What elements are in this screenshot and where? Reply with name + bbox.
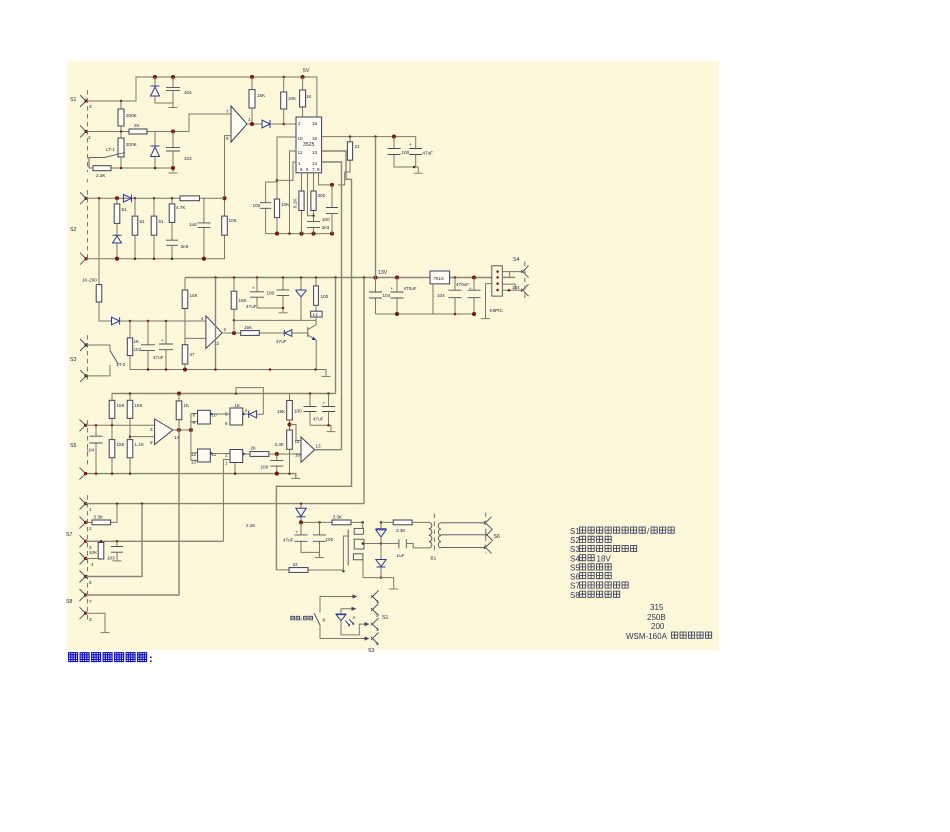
connector pin 8 [80,607,88,619]
capacitor 47uF C11 [165,321,167,370]
svg-text:+: + [323,401,326,406]
svg-text:S7: S7 [66,532,72,538]
wire S7 pin3 row [86,540,224,542]
svg-text:15K: 15K [239,298,248,303]
svg-text:47uF: 47uF [283,538,294,543]
svg-text:2.2K: 2.2K [96,173,106,178]
capacitor 47uF C12 [257,278,283,309]
connector lamp pin 2 [371,604,379,616]
schematic cream panel background [67,61,719,650]
connector pin 7 [80,589,88,601]
svg-text:100: 100 [326,537,334,542]
connector S2 pin b [80,253,88,265]
resistor 47 [182,345,188,364]
zener D2 [154,132,156,169]
resistor 3.3K driver b [393,520,412,525]
svg-text:100: 100 [402,150,410,155]
wire K8PIC pin2 [502,276,515,278]
wire to transformer primary [381,521,429,523]
gate G2 [230,408,243,425]
resistor 22 gate [276,570,343,571]
resistor 10K S7 [98,543,104,560]
svg-text:3: 3 [89,104,92,109]
op-amp U3 [155,419,173,445]
svg-text:1uF: 1uF [397,553,405,558]
resistor 10K feedback [222,216,228,235]
wire pin1 [277,162,296,180]
resistor 300 pin7 [313,173,315,216]
svg-text:5: 5 [89,580,92,585]
svg-text:S8: S8 [66,599,72,605]
wire 13V rail [185,277,492,279]
legend S5 line [570,564,611,573]
wire G1 to G2 [210,413,230,415]
capacitor 100 pin8 node [331,185,333,234]
svg-text:S2: S2 [70,227,76,233]
svg-text:7: 7 [226,109,229,114]
wire S7 pin5 row [86,504,143,577]
svg-text:16: 16 [235,403,241,408]
svg-text:2: 2 [89,526,92,531]
svg-text:4.7K: 4.7K [176,205,186,210]
connector pin 2 [80,516,88,528]
svg-text:+: + [391,286,394,291]
svg-text:8: 8 [317,167,320,172]
gate G4 [230,450,243,463]
svg-text:11: 11 [212,452,217,457]
wire chevron2 row [86,114,231,132]
svg-text:L1: L1 [313,312,319,317]
resistor 10K pullup [281,92,287,109]
resistor 15K output [241,331,260,336]
svg-text:47uF: 47uF [313,417,324,422]
transformer B1 secondary coil [438,523,441,548]
resistor 15K d [287,401,293,421]
svg-text:22: 22 [293,562,299,567]
svg-text:9: 9 [150,440,153,445]
svg-text:78L5: 78L5 [434,276,445,281]
svg-text:200K: 200K [126,113,138,118]
svg-text:2.2K: 2.2K [246,523,256,528]
wire driver node [301,521,332,523]
svg-text:4: 4 [201,316,204,321]
svg-text:103: 103 [134,347,142,352]
connector lamp pin 3 [371,618,379,630]
wire U3 inverting input [130,436,155,438]
svg-text:300: 300 [318,193,326,198]
gate G1 [198,410,211,424]
transistor Q1 [307,327,309,337]
resistor 15K pullup [249,90,255,108]
svg-text:1: 1 [376,599,379,604]
svg-text:3n9: 3n9 [181,244,189,249]
svg-text:47uF: 47uF [153,355,164,360]
connector S2 pin a [80,192,88,204]
svg-text:1: 1 [86,178,89,183]
resistor 2K [250,452,269,457]
svg-text:18V: 18V [597,554,612,563]
op-amp U2 [206,316,222,349]
op-amp U1A [231,106,247,142]
capacitor 1u5 [203,198,205,258]
wire pin14 bus A [322,162,342,450]
wire to mosfet drain [351,521,363,523]
svg-text:10K: 10K [229,218,238,223]
svg-text:100: 100 [261,465,269,470]
svg-text:47: 47 [190,352,196,357]
resistor series horizontal [180,196,200,201]
wire D10 to rail [236,388,263,415]
svg-text:+: + [296,530,299,535]
svg-text:13: 13 [316,444,322,449]
resistor 3.3K [287,430,293,449]
capacitor 3n9 [166,240,178,245]
svg-text:S5: S5 [70,443,76,449]
svg-text:104: 104 [184,156,192,161]
svg-text:15K: 15K [244,325,253,330]
wire S7 pin1 row [86,503,365,505]
svg-text:4: 4 [245,408,248,413]
svg-text:100: 100 [294,409,302,414]
resistor 1K pullup [300,90,306,107]
wire pin12 [290,151,297,234]
zener D13 [380,544,382,578]
wire K8PIC pin4 [502,289,522,291]
connector lamp pin 4 [371,633,379,645]
wire U2 output [222,332,284,334]
capacitor 103 [116,541,118,560]
connector dashed line S3 [87,335,89,382]
svg-text:1: 1 [298,161,301,166]
mosfet Q2 [354,528,363,534]
svg-text:+: + [161,338,164,343]
svg-text:15K: 15K [117,442,126,447]
svg-text:8: 8 [193,413,196,418]
zener D8 [300,278,302,321]
svg-text:WSM-160A: WSM-160A [626,632,668,641]
capacitor 104 C18 [95,425,97,473]
legend S7 line [570,582,628,591]
svg-text:3525: 3525 [303,142,315,148]
svg-text:S2: S2 [570,536,580,545]
capacitor 470uF C15 [396,278,398,315]
connector S5 pin a [80,419,88,431]
resistor 1.1K [127,440,133,458]
connector pin 4 [80,553,88,565]
connector S3 pin b [80,370,88,382]
wire bus to S7 row [363,278,365,504]
svg-text:315: 315 [650,603,664,612]
switch LT-1 [89,153,125,169]
capacitor C2 104 [172,132,174,169]
transformer core dashes [433,514,435,553]
resistor 3.3K S7 [86,504,118,523]
connector dashed line S1 [87,90,89,172]
legend S2 line [570,536,611,545]
svg-text:104: 104 [383,293,391,298]
svg-text:10K: 10K [281,202,290,207]
title WSM-160A [626,632,712,641]
svg-text:15K: 15K [190,293,199,298]
IC U1 3525 [296,117,322,173]
wire pin10 [277,137,296,199]
resistor 1K-200 [96,285,102,302]
wire G4 output [243,453,250,455]
capacitor 100 C13 [282,278,284,313]
legend S8 line [570,591,620,600]
wire pin13 bus B [276,151,351,570]
wire 1K-200 branch [99,198,112,321]
wire G4 pin1 from S7 [223,460,230,542]
svg-text:51: 51 [122,207,128,212]
svg-text:LT-1: LT-1 [106,147,115,152]
capacitor 47uF on pin15 [414,155,418,173]
resistor 15K x234 [231,291,237,309]
svg-text:200: 200 [651,622,665,631]
capacitor 104 C14 [375,278,377,315]
wire relay bottom row [320,638,366,640]
svg-text:3n3: 3n3 [322,225,330,230]
connector S5 pin b [80,468,88,480]
svg-text:1: 1 [89,507,92,512]
svg-text:103: 103 [107,556,115,561]
diode D9 [259,332,308,334]
wire pin15 rail [322,137,416,149]
wire source ground row [363,578,394,589]
svg-text:2: 2 [376,613,379,618]
svg-text:4: 4 [376,642,379,647]
svg-text:S4: S4 [513,257,519,263]
wire inverting input to 10K chain [225,136,232,216]
caption 逆变触发电路图: (blue bold) [69,653,153,665]
svg-text:6: 6 [225,421,228,426]
svg-text:2: 2 [88,135,91,140]
diode D6 [112,317,120,325]
svg-text:5V: 5V [303,68,310,74]
svg-text:10: 10 [212,413,218,418]
wire secondary taps [441,523,487,548]
svg-text:9: 9 [193,420,196,425]
svg-text:1K-200: 1K-200 [82,278,97,283]
svg-text:S1: S1 [70,97,76,103]
zener D5 [113,235,122,243]
capacitor 1uF coupling [399,539,406,548]
svg-text:S7: S7 [570,582,580,591]
switch LT-2 [86,345,110,376]
svg-text:15K: 15K [257,93,266,98]
capacitor 47uF C23 [301,522,320,552]
svg-text:2K: 2K [251,446,258,451]
svg-text:250B: 250B [647,613,666,622]
svg-text:2: 2 [224,327,227,332]
connector pin 3 [80,95,88,107]
diode D3 [262,120,270,128]
svg-text:12: 12 [191,452,197,457]
capacitor 100 C24 [319,522,321,557]
wire S5 input row [86,424,155,426]
wire U4 noninverting input [290,425,302,441]
svg-text:10K: 10K [288,96,297,101]
diode D4 [124,195,132,203]
svg-text:15: 15 [312,136,318,141]
wire U3 output node [173,429,191,431]
svg-text:47uF: 47uF [276,339,287,344]
wire relay top arrow [320,596,354,598]
wire bus 13V feed [375,137,377,278]
svg-text:1K: 1K [134,339,141,344]
svg-text:LT-2: LT-2 [117,362,126,367]
svg-text:+: + [252,286,255,291]
label 高频/手工 [291,616,313,622]
svg-text:6: 6 [300,167,303,172]
wire S8 pin8 stub [86,613,106,632]
wire G3 to G4 [210,453,230,455]
resistor 51 c [151,216,157,235]
resistor 15K b [127,400,133,418]
resistor 15K a [109,400,115,418]
svg-text:104: 104 [87,448,95,453]
svg-text:100: 100 [253,203,261,208]
resistor 2K horizontal [129,129,147,134]
svg-text:8.2K: 8.2K [293,198,298,208]
svg-text:S3: S3 [368,648,374,654]
wire gates 13V rail [112,393,336,395]
svg-text:S4: S4 [570,554,580,563]
wire G2 output [243,413,249,415]
svg-text:3.3K: 3.3K [333,515,343,520]
svg-text:47uF: 47uF [423,151,434,156]
resistor 10K pin10 [274,199,279,218]
wire pin5 [308,173,314,216]
wire vertical bus x215 [215,278,217,370]
svg-text:2: 2 [298,121,301,126]
svg-text:6: 6 [226,136,229,141]
connector lamp pin 1 [371,591,379,603]
wire U4 output to bus A [315,449,342,451]
wire 13V gnd row [376,313,475,315]
svg-text:13: 13 [191,460,197,465]
svg-text:K8PIC: K8PIC [490,308,504,313]
svg-text:1: 1 [248,117,251,122]
zener D12 [380,522,382,543]
svg-text:470uF: 470uF [456,282,469,287]
svg-text:7: 7 [89,599,92,604]
resistor 1K 103 [127,338,132,356]
svg-text:15K: 15K [117,403,126,408]
gate G3 [198,449,211,462]
svg-text:S3: S3 [570,545,580,554]
LED light arrows [345,619,353,625]
connector pin 5 [80,571,88,583]
svg-text:104: 104 [184,90,192,95]
svg-text:3.3K: 3.3K [396,528,406,533]
svg-text:100: 100 [322,217,330,222]
wire mosfet gate [343,536,348,571]
wire resistor21 to pin8 node [338,160,350,185]
svg-text:100: 100 [267,291,275,296]
resistor 15K c [109,440,115,458]
svg-text:S5: S5 [570,564,580,573]
resistor 100 collector [314,286,319,305]
svg-text:7: 7 [312,167,315,172]
svg-text:S6: S6 [570,572,580,581]
svg-text:13: 13 [312,150,318,155]
resistor 51 b [132,216,138,235]
capacitor 104 C16 [454,278,456,315]
capacitor 100 pin10 [266,182,277,234]
diode D11 [300,504,302,523]
legend S4 line [570,554,611,563]
regulator 78L5 [430,271,450,284]
resistor 4.7K [169,204,175,223]
op-amp U4 [301,437,315,462]
wire op-amp output node [247,123,262,125]
connector S3 pin a [80,339,88,351]
wire gate input net [191,414,198,461]
svg-text:100: 100 [321,294,329,299]
svg-text:S1: S1 [382,615,388,621]
wire G4 ground stub [234,463,236,474]
wire K8PIC pin3 ground [486,284,516,319]
connector pin 2 [80,126,88,138]
capacitor C1 104 [172,77,174,107]
svg-text:51: 51 [159,219,165,224]
svg-text:3.3K: 3.3K [275,442,285,447]
svg-text:B1: B1 [431,556,437,561]
svg-text:S1: S1 [570,527,580,536]
resistor 1K gate [176,401,182,420]
connector secondary pins [484,517,492,529]
svg-text:1.1K: 1.1K [135,442,145,447]
svg-text:10K: 10K [89,550,98,555]
svg-text:+: + [469,286,472,291]
svg-text:15K: 15K [277,409,286,414]
svg-text:11: 11 [295,439,300,444]
resistor 3.3K driver a [332,520,351,525]
wire caps ground [310,425,331,431]
wire analog ground rail [130,370,326,376]
wire K8PIC pin1 [502,272,522,278]
svg-text:3.3K: 3.3K [94,515,104,520]
capacitor 100 C19 [276,454,278,474]
wire noninverting input row [120,320,206,322]
svg-text:S8: S8 [570,591,580,600]
svg-text::: : [149,653,153,665]
svg-text:3: 3 [89,617,92,622]
legend S6 line [570,572,611,581]
svg-text:10: 10 [295,453,301,458]
connector K8PIC [492,266,503,296]
resistor 8.2K pin6 [301,173,303,234]
diode D10 [249,411,257,418]
svg-text:51: 51 [140,219,146,224]
node dots on 5V rail [120,100,123,103]
legend S3 line [570,545,637,554]
LED D14 [336,614,347,621]
resistor 51 a [114,204,120,224]
svg-text:3: 3 [376,627,379,632]
wire S2 top row [86,197,225,199]
inductor L1 box [311,311,322,317]
svg-text:13V: 13V [378,270,388,276]
wire 5V top rail [86,77,317,117]
transformer B1 primary coil [429,522,432,548]
connector dashed line S2 [87,190,89,262]
svg-text:4: 4 [91,562,94,567]
svg-text:1: 1 [225,461,228,466]
svg-text:14: 14 [312,161,318,166]
svg-text:16: 16 [312,121,318,126]
